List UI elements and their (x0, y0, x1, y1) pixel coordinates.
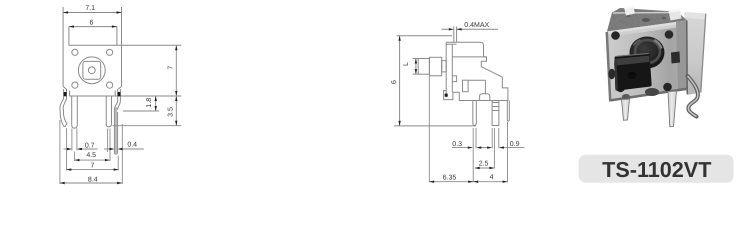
svg-text:3.5: 3.5 (167, 107, 174, 117)
svg-text:6: 6 (90, 20, 94, 27)
svg-text:7: 7 (167, 66, 174, 70)
svg-text:6: 6 (391, 80, 398, 84)
svg-text:TS-1102VT: TS-1102VT (602, 157, 711, 182)
svg-text:0.3: 0.3 (452, 141, 462, 148)
svg-text:0.9: 0.9 (510, 141, 520, 148)
svg-text:L: L (403, 62, 410, 66)
svg-text:2.5: 2.5 (479, 160, 489, 167)
svg-text:1.8: 1.8 (146, 98, 153, 108)
svg-text:4: 4 (490, 174, 494, 181)
svg-text:7.1: 7.1 (85, 5, 95, 12)
svg-text:0.7: 0.7 (85, 143, 95, 150)
svg-text:4.5: 4.5 (86, 152, 96, 159)
svg-text:0.4: 0.4 (127, 142, 137, 149)
svg-text:6.35: 6.35 (443, 175, 457, 182)
svg-text:7: 7 (91, 163, 95, 170)
svg-text:0.4MAX: 0.4MAX (464, 22, 489, 29)
svg-text:8.4: 8.4 (88, 177, 98, 184)
